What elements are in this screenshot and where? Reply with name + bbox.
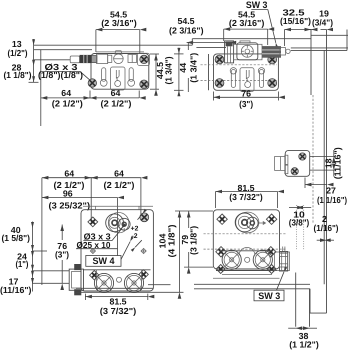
svg-text:(1 3/4"): (1 3/4") — [188, 53, 198, 83]
svg-text:(3 7/32"): (3 7/32") — [229, 192, 263, 202]
svg-text:(1 3/4"): (1 3/4") — [164, 56, 174, 84]
svg-text:(3 25/32"): (3 25/32") — [49, 200, 91, 210]
svg-text:81.5: 81.5 — [109, 296, 126, 306]
svg-text:64: 64 — [64, 168, 74, 178]
svg-text:(1 1/2"): (1 1/2") — [289, 339, 319, 349]
svg-text:SW 4: SW 4 — [93, 255, 116, 266]
svg-text:SW 3: SW 3 — [258, 290, 280, 301]
svg-text:(2 1/2"): (2 1/2") — [104, 180, 135, 190]
svg-text:(1 1/16"): (1 1/16") — [317, 195, 347, 205]
svg-text:(2 1/2"): (2 1/2") — [52, 98, 83, 108]
svg-text:(2 3/16"): (2 3/16") — [169, 26, 204, 36]
svg-text:(2 1/2"): (2 1/2") — [101, 98, 132, 108]
svg-text:(4 1/8"): (4 1/8") — [166, 224, 176, 257]
svg-text:44: 44 — [178, 63, 188, 73]
svg-text:+2: +2 — [131, 226, 139, 233]
svg-text:(3 7/32"): (3 7/32") — [100, 306, 137, 316]
svg-text:(1 5/8"): (1 5/8") — [1, 233, 30, 243]
svg-text:(11/16"): (11/16") — [333, 147, 343, 179]
svg-text:(3 1/8"): (3 1/8") — [189, 226, 199, 255]
svg-text:64: 64 — [114, 168, 124, 178]
svg-text:(11/16"): (11/16") — [0, 285, 32, 295]
svg-text:(3"): (3") — [239, 99, 253, 109]
svg-text:-2: -2 — [131, 233, 137, 240]
svg-text:(1/16"): (1/16") — [314, 223, 339, 233]
svg-text:(1 1/8"): (1 1/8") — [4, 70, 32, 80]
svg-text:(3/8"): (3/8") — [289, 218, 310, 228]
svg-text:(3/4"): (3/4") — [312, 17, 333, 27]
svg-text:(15/16"): (15/16") — [280, 16, 311, 26]
svg-text:64: 64 — [61, 88, 71, 98]
svg-text:(1/2"): (1/2") — [8, 48, 28, 58]
svg-text:(1"): (1") — [16, 259, 29, 269]
svg-text:76: 76 — [241, 89, 251, 99]
svg-text:(2 3/16"): (2 3/16") — [229, 18, 265, 28]
svg-text:(3"): (3") — [55, 249, 69, 259]
svg-text:(1/8")(1/8"): (1/8")(1/8") — [38, 70, 83, 80]
svg-text:(2 3/16"): (2 3/16") — [101, 18, 137, 28]
